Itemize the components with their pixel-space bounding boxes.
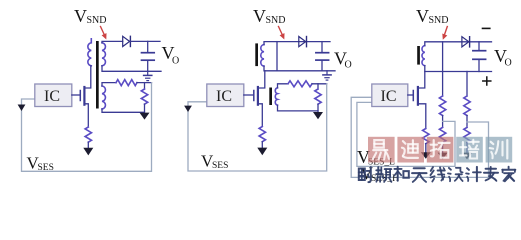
winding L2 (aux): [275, 88, 277, 105]
svg-text:SES: SES: [38, 163, 54, 173]
feedback loop wire VSES (circuit 1): [22, 83, 152, 172]
resistor R10 (divider low, lower): [464, 127, 470, 142]
feedback direction arrow: [18, 105, 26, 112]
svg-text:SND: SND: [87, 15, 107, 26]
red annotation arrow (circuit 1): [101, 27, 107, 40]
wire sense node: [312, 83, 327, 85]
svg-text:SES: SES: [212, 161, 228, 171]
wire sense node: [137, 82, 152, 84]
svg-text:V: V: [74, 6, 87, 26]
svg-text:IC: IC: [216, 88, 232, 105]
node VSES_L label: [357, 147, 395, 168]
transformer T1 core: [96, 41, 99, 109]
svg-text:SND: SND: [429, 15, 449, 26]
diode D1: [123, 36, 131, 46]
resistor R7 (divider high, upper): [439, 96, 445, 116]
node VSND label (circuit 2): [253, 6, 286, 26]
IC U1: [35, 84, 72, 107]
IC U2: [207, 84, 244, 107]
ground (earth) under C2: [323, 71, 331, 80]
diode D2: [299, 37, 307, 47]
resistor R5 (vertical divider): [315, 84, 321, 112]
ground arrow (sense divider): [140, 113, 150, 120]
ground arrow (divider low): [462, 153, 472, 160]
wire IC to gate (circuit 3): [408, 94, 414, 96]
wire L1 bottom / bottom rail: [264, 66, 335, 71]
resistor R4 (horizontal sense): [288, 81, 312, 87]
wire col3 drop from bottom rail: [466, 72, 468, 97]
minus sign (output): [483, 27, 490, 29]
plus sign (output): [483, 77, 491, 85]
feedback loop wire VSES (circuit 2): [188, 84, 327, 171]
ground arrow (divider high): [438, 153, 448, 160]
resistor R9 (divider low, upper): [464, 96, 470, 116]
ground (earth) under C1: [144, 71, 152, 80]
wire secondary top / output top rail: [102, 41, 123, 42]
diode D3: [462, 37, 470, 47]
transformer T1 secondary winding: [102, 43, 105, 66]
resistor R1 (horizontal sense): [116, 80, 137, 86]
wire aux top to sense network: [278, 84, 289, 88]
capacitor C3: [473, 42, 486, 72]
wire L3 bottom / bottom rail: [425, 66, 492, 72]
transformer T1 primary winding: [88, 39, 91, 66]
wire secondary bottom / output bottom rail: [102, 66, 161, 72]
ground arrow (source, circuit 3): [421, 152, 431, 159]
inductor L1 core: [255, 43, 258, 66]
wire IC to gate (circuit 2): [244, 94, 254, 96]
wire IC to gate: [72, 94, 81, 96]
wire diode cathode to output node: [130, 40, 160, 42]
capacitor C1: [142, 41, 155, 71]
svg-text:O: O: [172, 56, 179, 67]
inductor L3 winding: [422, 46, 425, 66]
wire switch-node drop: [276, 42, 278, 71]
wire aux bottom return: [278, 105, 319, 111]
feedback loop wire VSES_H (outer): [351, 97, 488, 177]
node VO label (circuit 1): [162, 43, 180, 67]
node VO label (circuit 2): [334, 49, 352, 71]
wire aux top to sense network: [102, 83, 116, 86]
inductor L1 winding: [261, 45, 264, 66]
feedback loop wire VSES_L (inner): [357, 102, 455, 166]
ground arrow (sense divider, circuit 2): [313, 112, 323, 119]
wire tap (divider high): [442, 116, 444, 128]
red annotation arrow (circuit 2): [279, 27, 285, 40]
wire top rail (circuit 2): [264, 42, 330, 45]
wire divider drop (switch node): [442, 42, 444, 96]
wire aux bottom return: [102, 109, 145, 112]
wire top rail (circuit 3): [425, 42, 492, 46]
capacitor C2: [316, 42, 329, 71]
transistor Q3 (MOSFET): [413, 72, 426, 129]
resistor R6 (source sense, circuit 2): [259, 127, 265, 142]
node VSES label (circuit 1): [27, 154, 54, 174]
feedback direction arrow (circuit 2): [184, 106, 192, 112]
watermark text row: [359, 167, 371, 182]
winding L2 core (aux): [269, 88, 272, 106]
ground arrow (source, circuit 2): [257, 148, 267, 156]
svg-text:O: O: [505, 58, 512, 69]
resistor R11 (source sense, circuit 3): [423, 129, 429, 144]
IC U3: [372, 84, 408, 107]
node VSND label (circuit 1): [74, 6, 107, 26]
node VSES_H label: [360, 164, 399, 185]
svg-text:IC: IC: [381, 88, 397, 105]
svg-text:V: V: [416, 6, 429, 26]
resistor R8 (divider high, lower): [439, 127, 445, 142]
wire tap (divider low): [466, 116, 468, 128]
svg-text:V: V: [253, 6, 266, 26]
resistor R2 (vertical divider): [141, 83, 147, 112]
node VO label (circuit 3): [494, 46, 512, 69]
svg-text:SND: SND: [266, 15, 286, 26]
watermark logo tiles: [368, 137, 512, 163]
svg-text:O: O: [345, 60, 352, 71]
inductor L3 core: [417, 46, 420, 65]
ground arrow (source): [83, 148, 93, 156]
node VSES label (circuit 2): [201, 152, 228, 172]
red annotation arrow (circuit 3): [442, 27, 447, 40]
transistor Q1 (MOSFET): [80, 87, 88, 127]
transformer T1 auxiliary winding: [102, 86, 105, 109]
svg-text:IC: IC: [44, 88, 60, 105]
transistor Q2 (MOSFET): [254, 71, 265, 127]
resistor R3 (source sense): [85, 127, 91, 142]
node VSND label (circuit 3): [416, 6, 449, 26]
wire primary bottom to Q1 drain: [85, 66, 91, 88]
